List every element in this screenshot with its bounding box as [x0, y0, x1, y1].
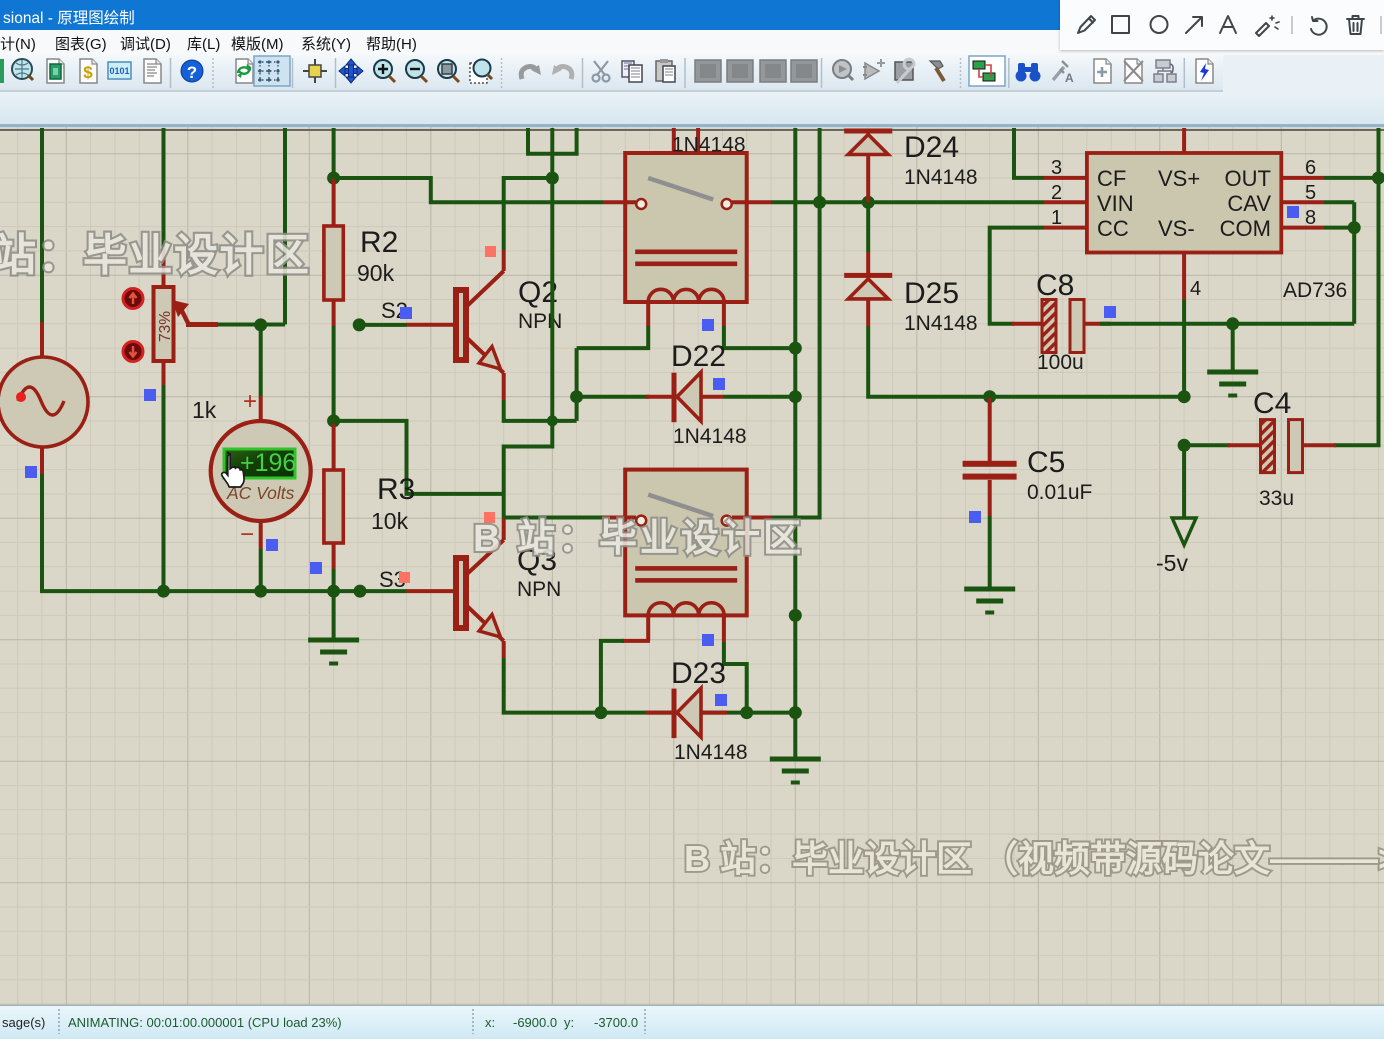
potentiometer RV1 [154, 251, 175, 385]
svg-text:CC: CC [1097, 216, 1129, 241]
wire trident mid [550, 128, 554, 178]
junction COM [1348, 221, 1361, 234]
junction voltmeter top [254, 318, 267, 331]
value 1N4148 D25 [904, 312, 978, 335]
U1 name VIN [1097, 191, 1134, 216]
junction bus pot [157, 585, 170, 598]
toolbar icon 0101 doc [108, 62, 131, 79]
svg-text:0.01uF: 0.01uF [1027, 481, 1092, 504]
pot wiper arrow [172, 300, 218, 325]
wire CAV stub [1324, 200, 1354, 204]
label -5v [1156, 550, 1188, 576]
toolbar icon disabled gate [863, 59, 885, 79]
toolbar icon zoom all [438, 60, 459, 82]
overlay icon trash [1347, 16, 1364, 34]
label Q2 [518, 276, 558, 309]
toolbar icon del sheet [1124, 59, 1143, 83]
title bar [0, 0, 1384, 30]
Q3 emitter pin [502, 641, 506, 658]
wire RL1 right coil down [724, 326, 795, 348]
voltmeter plus pin [259, 396, 263, 422]
toolbar icon disabled block a [695, 60, 721, 82]
junction R3 top node [327, 414, 340, 427]
pot down button [123, 342, 143, 362]
toolbar icon binoculars [1016, 63, 1041, 82]
svg-text:1N4148: 1N4148 [674, 741, 748, 764]
svg-text:4: 4 [1190, 278, 1201, 300]
overlay icon arrow [1186, 17, 1202, 33]
tab strip [0, 92, 1384, 127]
junction bus S3 [354, 585, 367, 598]
toolbar icon world magnifier [12, 59, 33, 80]
value 33u [1259, 487, 1294, 510]
wire C4 left [1184, 443, 1230, 447]
overlay icon pencil [1078, 16, 1095, 33]
junction -5v node [1178, 390, 1191, 403]
wire C8 to COM [1100, 322, 1354, 326]
toolbar icon hammer [930, 61, 944, 81]
handle near S2 [400, 307, 412, 319]
capacitor C4 [1261, 420, 1303, 473]
svg-text:VS-: VS- [1158, 216, 1195, 241]
Q2 emitter pin [502, 373, 506, 400]
junction x795 D22 [789, 390, 802, 403]
label C5 [1027, 446, 1065, 479]
svg-text:B 站：毕业设计区 （视频带源码论文———>: B 站：毕业设计区 （视频带源码论文———> [684, 838, 1384, 879]
resistor R2 pins [332, 178, 336, 326]
wire pot bottom to bus [162, 385, 166, 591]
label AD736 [1283, 279, 1347, 302]
svg-text:8: 8 [1305, 207, 1316, 229]
pin number 5 [1305, 182, 1316, 204]
toolbar icon paste [656, 59, 675, 82]
svg-text:0101: 0101 [109, 66, 129, 76]
toolbar icon disabled block d [791, 60, 817, 82]
wire CF riser [1014, 128, 1044, 178]
toolbar icon zoom area [470, 60, 492, 84]
value NPN Q2 [518, 310, 562, 333]
label R2 [360, 226, 398, 259]
pin number 3 [1051, 157, 1062, 179]
junction bus RL2 right coil [740, 706, 753, 719]
junction S2 node [353, 318, 366, 331]
svg-text:−: − [240, 521, 254, 548]
diode D25 top pin [866, 252, 870, 273]
junction IC ground [1226, 317, 1239, 330]
svg-text:6: 6 [1305, 157, 1316, 179]
wire COM stub [1324, 226, 1354, 230]
svg-text:100u: 100u [1037, 351, 1084, 374]
main toolbar [0, 55, 1384, 92]
toolbar icon simulate doc [1196, 59, 1213, 83]
wire node to R3 branch right [334, 421, 504, 494]
svg-text:+: + [243, 388, 257, 415]
wire VS- down [1182, 300, 1186, 397]
toolbar icon grid toggle selected [254, 56, 290, 86]
wire R3 bottom to bus [332, 569, 336, 591]
label D22 [671, 340, 726, 373]
watermark middle [473, 518, 804, 560]
relay RL2 right contact pin [732, 516, 771, 520]
U1 name CAV [1227, 191, 1271, 216]
svg-text:1k: 1k [192, 397, 217, 423]
wire emitter up to D22 node [575, 348, 579, 421]
toolbar icon redo [552, 65, 572, 79]
wire -5v stub [1182, 445, 1186, 518]
Q2 collector pin [502, 250, 506, 271]
overlay icon text A [1220, 16, 1236, 33]
resistor R3 body [324, 470, 343, 543]
origin marker Q3 [484, 512, 495, 523]
wire riser at x285 [283, 128, 287, 325]
junction bus R3 [327, 585, 340, 598]
wire RL2 left coil down [601, 641, 624, 713]
ground C5 [964, 589, 1015, 613]
pot up button [123, 289, 143, 309]
overlay separator 1 [1291, 16, 1293, 34]
relay RL1 right contact pin [732, 200, 771, 204]
svg-text:1N4148: 1N4148 [904, 166, 978, 189]
wire RL1 right contact to VIN [771, 200, 1044, 204]
junction D24 on contact wire [862, 196, 875, 209]
svg-text:?: ? [187, 63, 197, 82]
toolbar icon origin [303, 59, 327, 83]
resistor R3 pins [332, 424, 336, 569]
transistor Q2 [456, 271, 504, 373]
svg-text:90k: 90k [357, 260, 395, 286]
wire ground stub D23 [793, 713, 797, 759]
svg-text:C8: C8 [1036, 269, 1074, 302]
handle below RL1 [702, 319, 714, 331]
overlay snip toolbar [1060, 0, 1384, 50]
power -5v arrow [1172, 518, 1196, 545]
svg-text:-5v: -5v [1156, 550, 1188, 576]
U1 pin VS+ top [1182, 128, 1186, 153]
wire to RL1 left contact [334, 178, 603, 202]
diode D25 [844, 273, 892, 299]
toolbar icon cut [593, 61, 610, 82]
watermark bottom [684, 838, 1384, 879]
svg-text:A: A [1065, 71, 1074, 85]
toolbar icon zoom out [406, 60, 427, 82]
svg-text:VIN: VIN [1097, 191, 1134, 216]
voltmeter body [211, 421, 311, 521]
capacitor C8 pins [1012, 322, 1111, 326]
label C4 [1253, 387, 1291, 420]
Q3 base pin [407, 589, 457, 593]
toolbar icon bom doc [80, 59, 97, 83]
toolbar icon report doc [144, 59, 161, 83]
overlay icon circle [1151, 16, 1168, 33]
toolbar separators [171, 58, 1185, 88]
value 1k [192, 397, 217, 423]
handle pin8 [1287, 206, 1299, 218]
svg-text:3: 3 [1051, 157, 1062, 179]
AC source V1 body [0, 322, 88, 474]
value 90k [357, 260, 395, 286]
wire V1 top (net to AC source) [40, 128, 44, 322]
wire pot top riser [162, 128, 166, 251]
svg-text:1N4148: 1N4148 [673, 425, 747, 448]
pin number 4 [1190, 278, 1201, 300]
handle D23 b [715, 694, 727, 706]
value 10k [371, 508, 409, 534]
label D23 [671, 657, 726, 690]
capacitor C5 plates [963, 461, 1017, 480]
toolbar icon undo [521, 65, 541, 79]
status bar [0, 1005, 1384, 1039]
relay RL1 left contact pin [603, 200, 636, 204]
wire voltmeter minus to bus [259, 549, 263, 591]
svg-text:+196: +196 [240, 449, 296, 477]
label C8 [1036, 269, 1074, 302]
handle below minus [266, 539, 278, 551]
junction x795 coil2 [789, 609, 802, 622]
junction bus ground [789, 706, 802, 719]
toolbar icon disabled magnifier [833, 60, 853, 80]
svg-text:5: 5 [1305, 182, 1316, 204]
label R3 [377, 473, 415, 506]
value 0.01uF [1027, 481, 1092, 504]
svg-text:C5: C5 [1027, 446, 1065, 479]
toolbar icon help [181, 60, 203, 82]
svg-text:1N4148: 1N4148 [904, 312, 978, 335]
resistor R2 body [324, 226, 343, 300]
pin number 8 [1305, 207, 1316, 229]
diode D25 bottom pin [866, 299, 870, 326]
handle near 1k [144, 389, 156, 401]
svg-text:VS+: VS+ [1158, 166, 1200, 191]
handle left of source [25, 466, 37, 478]
U1 name CF [1097, 166, 1126, 191]
relay RL2 coil pins [648, 615, 724, 642]
wire Q3 collector node to RL2 [504, 516, 603, 520]
wire C5 to ground [988, 516, 992, 589]
toolbar icon netlist selected [969, 56, 1005, 86]
svg-text:站：毕业设计区: 站：毕业设计区 [0, 231, 311, 280]
value NPN Q3 [517, 578, 561, 601]
relay RL2 left coil elbow [622, 639, 650, 643]
relay RL2 left contact pin [603, 516, 636, 520]
pin number 6 [1305, 157, 1316, 179]
relay RL1 [625, 153, 747, 302]
diode D22 [672, 372, 702, 422]
wire OUT stub [1324, 176, 1379, 180]
value 1N4148 top [672, 134, 746, 157]
diode D24 [844, 129, 892, 155]
wire R2 bottom to node [332, 326, 336, 421]
U1 name COM [1220, 216, 1271, 241]
toolbar icon refresh doc [236, 59, 253, 83]
wire trident left [528, 128, 577, 154]
wire D24 to D25 [866, 202, 870, 252]
wire D22 cathode to x795 [723, 395, 795, 399]
ground D23 [770, 759, 821, 783]
wire D22 anode [577, 395, 649, 399]
svg-text:CF: CF [1097, 166, 1126, 191]
toolbar icon pan [339, 59, 363, 83]
wire Q3 emitter to bus [504, 658, 796, 713]
diode D24 pin [866, 155, 870, 203]
svg-text:NPN: NPN [517, 578, 561, 601]
svg-text:33u: 33u [1259, 487, 1294, 510]
label S3 [379, 567, 406, 592]
pin number 1 [1051, 207, 1062, 229]
U1 name VS+ [1158, 166, 1200, 191]
svg-text:D24: D24 [904, 131, 959, 164]
wire riser x819 to RL2 [771, 128, 820, 518]
U1 name OUT [1225, 166, 1271, 191]
svg-text:COM: COM [1220, 216, 1271, 241]
wire Q2 emitter [504, 400, 577, 421]
mouse cursor hand [222, 453, 244, 487]
pin number 2 [1051, 182, 1062, 204]
diode D22 pins [646, 395, 723, 399]
toolbar icon ic wrench [895, 59, 914, 83]
svg-text:R2: R2 [360, 226, 398, 259]
wire voltmeter plus [259, 325, 263, 396]
relay RL2 [625, 470, 747, 616]
diode D23 [672, 688, 702, 738]
svg-text:AD736: AD736 [1283, 279, 1347, 302]
handle C5 [969, 511, 981, 523]
sheet top edge [0, 129, 1384, 131]
value 1N4148 D23 [674, 741, 748, 764]
U1 pin stubs right [1281, 178, 1324, 228]
svg-text:OUT: OUT [1225, 166, 1271, 191]
wire main vertical x552 [504, 178, 553, 518]
junction x819 on contact wire [813, 196, 826, 209]
wire COM riser [1352, 202, 1356, 323]
junction OUT [1372, 171, 1384, 184]
Q3 collector pin [502, 518, 506, 541]
toolbar icon disabled block c [760, 60, 786, 82]
relay RL1 top pins [674, 128, 698, 153]
toolbar icon zoom in [374, 60, 395, 82]
svg-text:1N4148: 1N4148 [672, 134, 746, 157]
wire S2 to Q2 base [359, 323, 406, 327]
toolbar icon wrench A [1053, 61, 1074, 85]
menu bar [0, 30, 1384, 56]
toolbar icon copy [622, 61, 642, 82]
wire RL1 left coil down [577, 326, 649, 348]
op-amp U1 AD736 body [1087, 153, 1281, 253]
svg-text:CAV: CAV [1227, 191, 1271, 216]
diode D23 pins [646, 711, 727, 715]
U1 name CC [1097, 216, 1129, 241]
junction D22 anode node [570, 390, 583, 403]
toolbar icon open sliver [0, 59, 4, 83]
transistor Q3 [456, 540, 504, 641]
wire CC loop [990, 228, 1044, 324]
origin marker S3 [399, 572, 410, 583]
capacitor C8 [1042, 300, 1084, 353]
wire AC source to ground bus [42, 474, 407, 591]
capacitor C4 pins [1228, 443, 1336, 447]
watermark top-left [0, 231, 311, 280]
junction x795 coil [789, 342, 802, 355]
toolbar icon new sheet [1094, 59, 1111, 83]
label D24 [904, 131, 959, 164]
overlay separator 2 [1380, 16, 1382, 34]
handle D22 [713, 378, 725, 390]
junction C4 node [1178, 439, 1191, 452]
svg-text:D23: D23 [671, 657, 726, 690]
svg-text:C4: C4 [1253, 387, 1291, 420]
Q2 base pin [407, 323, 457, 327]
svg-text:D22: D22 [671, 340, 726, 373]
label Q3 [517, 544, 557, 577]
wire R2 top riser [332, 128, 336, 178]
svg-text:10k: 10k [371, 508, 409, 534]
ground IC [1207, 372, 1258, 396]
label D25 [904, 277, 959, 310]
svg-text:D25: D25 [904, 277, 959, 310]
status separators [59, 1009, 645, 1034]
svg-text:2: 2 [1051, 182, 1062, 204]
junction bus voltmeter [254, 585, 267, 598]
junction emitter cross [547, 415, 558, 426]
U1 pin stubs left [1044, 178, 1087, 228]
voltmeter minus pin [259, 521, 263, 549]
svg-text:NPN: NPN [518, 310, 562, 333]
junction C5 top [983, 390, 996, 403]
svg-text:$: $ [83, 63, 93, 82]
overlay icon rectangle [1112, 16, 1129, 33]
wire D25 to long bus [868, 326, 1184, 397]
value 1N4148 D24 [904, 166, 978, 189]
capacitor C5 pins [988, 398, 992, 516]
U1 pin VS- bottom [1182, 253, 1186, 300]
handle R3 left [310, 562, 322, 574]
toolbar icon hierarchy [1154, 60, 1176, 82]
value 1N4148 D22 [673, 425, 747, 448]
toolbar icon pcb doc [47, 59, 64, 83]
origin marker Q2 [485, 246, 496, 257]
junction R2 top [327, 172, 340, 185]
toolbar icon disabled block b [727, 60, 753, 82]
svg-text:R3: R3 [377, 473, 415, 506]
wire long vertical x795 [793, 128, 797, 713]
wire ground stub IC [1231, 324, 1235, 372]
ground main [308, 640, 359, 664]
plus sign [243, 388, 257, 415]
junction bus RL2 left coil [594, 706, 607, 719]
handle D23 a [702, 634, 714, 646]
value 100u [1037, 351, 1084, 374]
overlay icon undo rotate [1311, 17, 1327, 35]
minus sign [240, 521, 254, 548]
wire pot wiper to node [218, 323, 285, 327]
handle C8 [1104, 306, 1116, 318]
wire OUT riser [1334, 128, 1379, 445]
wire Q2 collector riser [504, 178, 553, 250]
overlay icon magic wand [1256, 16, 1279, 36]
svg-text:1: 1 [1051, 207, 1062, 229]
svg-text:73%: 73% [157, 311, 174, 342]
svg-text:B 站：毕业设计区: B 站：毕业设计区 [473, 518, 804, 560]
relay RL1 coil pins [648, 302, 724, 326]
wire RL2 right coil down [724, 642, 747, 713]
U1 name VS- [1158, 216, 1195, 241]
label S2 [381, 298, 408, 323]
junction collector node [546, 172, 559, 185]
wire ground stub [332, 591, 336, 640]
